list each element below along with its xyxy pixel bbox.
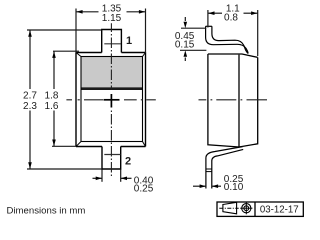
- side view: body outline: [208, 54, 258, 147]
- dimension 0.25/0.10 (lead thickness, side bottom): [193, 185, 221, 187]
- title block box: [217, 202, 303, 216]
- pin 1 fold line: [104, 43, 121, 45]
- svg-text:0.15: 0.15: [175, 39, 195, 50]
- svg-text:2.3: 2.3: [23, 101, 37, 112]
- front view vertical centerline: [110, 23, 112, 176]
- svg-text:1.15: 1.15: [102, 13, 122, 24]
- title block divider: [254, 202, 256, 216]
- pin 2 tab: [102, 147, 121, 170]
- projection symbol: cone centerline: [219, 207, 238, 209]
- svg-text:0.25: 0.25: [134, 184, 154, 195]
- projection symbol: circles: [242, 204, 251, 213]
- svg-text:0.10: 0.10: [224, 182, 244, 193]
- dimension 0.40/0.25 (tab width, bottom): [93, 170, 132, 182]
- front view: inner face rectangle: [81, 57, 143, 142]
- side view: top lead: [206, 26, 248, 53]
- dimension 1.35/1.15 (body width, top): [76, 9, 146, 54]
- front view: corner bevels: [76, 53, 146, 147]
- dimension 1.8/1.6 (body height, left inner): [52, 51, 79, 146]
- projection symbol: cone: [223, 202, 237, 214]
- side view horizontal centerline: [199, 99, 268, 101]
- svg-text:2: 2: [125, 155, 131, 167]
- projection symbol: crosshair: [240, 207, 252, 209]
- svg-text:1.6: 1.6: [45, 101, 59, 112]
- front view horizontal centerline: [66, 99, 155, 101]
- dimension 0.45/0.15 (lead standoff, side left): [180, 17, 206, 61]
- front view: body outer outline: [76, 53, 146, 147]
- svg-text:Dimensions in mm: Dimensions in mm: [7, 206, 86, 217]
- side view: bottom lead: [206, 147, 243, 189]
- pin 1 tab: [102, 30, 122, 53]
- pin 2 fold line: [104, 154, 120, 156]
- svg-text:1: 1: [126, 35, 132, 47]
- dimension 1.1/0.8 (side width, top): [208, 10, 258, 56]
- dimension 2.7/2.3 (overall height, left): [27, 30, 102, 169]
- center cross: [104, 94, 120, 108]
- front view: cathode band thick bottom edge: [81, 87, 143, 90]
- svg-text:0.8: 0.8: [224, 12, 238, 23]
- svg-text:03-12-17: 03-12-17: [260, 204, 299, 215]
- front view: cathode band (gray): [81, 57, 143, 89]
- lead break marks: [206, 168, 212, 170]
